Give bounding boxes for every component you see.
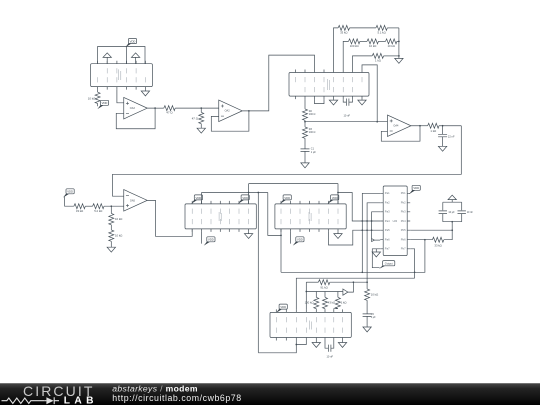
wire pin2 riser: [201, 193, 203, 204]
wire long branch down: [257, 193, 259, 353]
svg-text:100 kΩ: 100 kΩ: [350, 44, 359, 48]
wire: [350, 27, 376, 29]
IC U1 inner pin-name marks: [98, 68, 146, 82]
logo diode: [44, 397, 59, 404]
svg-text:OA3: OA3: [130, 107, 136, 110]
wire L1 from H1 bus: [362, 193, 380, 272]
svg-text:1 kΩ: 1 kΩ: [341, 301, 347, 305]
IC U2 bottom pin stubs: [296, 96, 363, 99]
svg-text:43 kΩ: 43 kΩ: [328, 301, 335, 305]
IC U5 inner pin labels: [385, 191, 406, 251]
svg-text:91 kΩ: 91 kΩ: [320, 285, 327, 289]
resistor 10 kΩ: [365, 289, 370, 300]
wire pin1 down: [280, 229, 282, 272]
IC U1 bottom pin stubs: [98, 87, 146, 90]
ground below IC U1 pin6: [144, 90, 146, 91]
resistor 33 kΩ: [432, 237, 443, 242]
ground below pin7: [337, 232, 339, 234]
resistor 10 kΩ lower: [110, 225, 112, 230]
svg-text:22 nF: 22 nF: [448, 135, 455, 139]
capacitor 10 nF between pins6-7: [325, 341, 334, 352]
svg-text:Pb3: Pb3: [401, 210, 406, 214]
IC U2 inner pin-name marks: [296, 77, 363, 92]
wire row1 from pin5: [334, 28, 339, 70]
node VDD tag T3: [63, 189, 74, 198]
wire bus H2: [296, 278, 414, 309]
wire L7 to ground and output tap: [372, 249, 380, 268]
IC U4 top pin stubs: [281, 201, 338, 204]
resistor 10 kΩ upper: [110, 206, 112, 213]
wire OA2 out to IC U2 pin3: [249, 55, 315, 111]
IC U2 top pin stubs: [296, 70, 363, 73]
wire pin8 loop to OA4 node: [362, 65, 377, 122]
wire pin4 riser: [126, 47, 128, 64]
op-amp OA4: [388, 115, 412, 137]
svg-text:100 kΩ: 100 kΩ: [305, 301, 314, 305]
wire right rail: [398, 28, 400, 59]
wire: [397, 40, 399, 42]
resistor 47 Ω shunt: [200, 108, 202, 112]
svg-text:Pb4: Pb4: [401, 219, 406, 223]
svg-text:Pa2: Pa2: [385, 201, 390, 205]
wire IC U1 pin3 to OA3 +: [117, 90, 124, 103]
IC U1: [91, 64, 153, 87]
svg-text:10 kΩ: 10 kΩ: [115, 234, 122, 238]
svg-text:Pa5: Pa5: [385, 228, 390, 232]
wire L2 chain down: [367, 203, 380, 289]
wire L3 loop to L6 with direction marker: [372, 212, 381, 239]
IC U6 bottom pin stubs: [276, 338, 342, 341]
wire: [444, 230, 452, 240]
wire pin4 bottom jog to pin3 net: [296, 341, 306, 345]
wire to OA5 +: [104, 205, 124, 207]
logo resistor zigzag: [2, 398, 45, 403]
ground below pin5: [333, 99, 335, 100]
node VDD tag T8: [328, 195, 339, 204]
wire OA4 feedback loop: [381, 126, 420, 141]
svg-text:5.1 kΩ: 5.1 kΩ: [378, 30, 386, 34]
wire pin4 riser: [305, 282, 307, 309]
resistor R2 100 Ω: [304, 99, 306, 109]
svg-text:OA4: OA4: [393, 125, 399, 128]
node VDD tag T4: [191, 195, 202, 204]
svg-text:LAB: LAB: [64, 396, 98, 405]
capacitor 10 µF: [439, 202, 447, 222]
resistor R3 100 Ω: [304, 120, 306, 127]
wire OA5 out to IC U3 pin1: [147, 200, 192, 236]
svg-text:1 µF: 1 µF: [311, 151, 317, 154]
IC U5 right pin stubs: [407, 193, 410, 249]
resistor 33 kΩ: [74, 204, 85, 209]
node VDD tag T10: [276, 304, 287, 313]
svg-text:http://circuitlab.com/cwb6p78: http://circuitlab.com/cwb6p78: [112, 393, 241, 403]
node VDD tag T9 below pin2: [290, 232, 292, 244]
svg-text:100 Ω: 100 Ω: [309, 131, 316, 134]
svg-text:10 kΩ: 10 kΩ: [388, 44, 395, 48]
svg-text:Pa3: Pa3: [385, 210, 390, 214]
capacitor 10 nF: [458, 202, 466, 222]
power flag on pin5: [135, 57, 137, 63]
ground: [197, 128, 205, 133]
svg-text:10 µF: 10 µF: [448, 211, 455, 214]
resistor 10 kΩ: [367, 39, 378, 44]
svg-text:Pb1: Pb1: [401, 191, 406, 195]
resistor 10 kΩ: [386, 39, 397, 44]
wire cap block bottom: [443, 222, 462, 231]
IC U4 bottom pin stubs: [281, 229, 338, 232]
wire buffer row: [306, 291, 343, 293]
svg-text:10 kΩ: 10 kΩ: [371, 292, 378, 296]
svg-text:Pa1: Pa1: [385, 191, 390, 195]
wire OA2 feedback loop: [211, 111, 249, 131]
ground: [363, 327, 371, 332]
wire row3 from pin7: [353, 56, 373, 70]
IC U5 left pin stubs: [380, 193, 383, 249]
wire: [360, 40, 367, 42]
svg-text:5.2 kΩ: 5.2 kΩ: [94, 209, 102, 213]
wire: [439, 125, 461, 127]
resistor 43 kΩ: [324, 292, 326, 298]
node junction: [200, 107, 202, 109]
wire row2 from pin6: [343, 41, 348, 69]
svg-text:47 Ω: 47 Ω: [192, 117, 199, 121]
resistor 47 Ω series: [164, 106, 175, 111]
ground: [395, 58, 403, 63]
wire OA3 feedback loop: [116, 108, 155, 129]
ground below pin8: [342, 341, 344, 343]
wire pin7 node to tall IC L4: [338, 193, 380, 222]
wire: [330, 281, 367, 283]
node VDD tag T6 below pin2: [201, 232, 203, 244]
wire R6: [410, 239, 432, 241]
IC U3: [185, 204, 256, 229]
wire pins3-4 jumper: [315, 99, 325, 104]
resistor 33 kΩ: [338, 25, 349, 30]
resistor 5.2 kΩ: [93, 204, 104, 209]
node Output tag T12: [379, 265, 387, 269]
ground below pin5: [315, 341, 317, 343]
resistor 100 kΩ: [349, 39, 360, 44]
wire top rail to IC U4 pin7: [249, 183, 339, 185]
capacitor C1 1 µF: [301, 138, 310, 163]
wire R7 down: [410, 249, 414, 278]
svg-text:10 nF: 10 nF: [343, 114, 350, 118]
resistor 1 kΩ: [420, 125, 428, 127]
node VDD tag T1: [125, 39, 136, 48]
resistor 1 kΩ: [372, 53, 383, 58]
wire to OA2 +: [175, 107, 219, 109]
svg-text:Pb6: Pb6: [401, 238, 406, 242]
IC U6 inner pin-name marks: [276, 317, 342, 333]
wire pin7 riser to top rail: [248, 184, 250, 204]
svg-text:OA5: OA5: [130, 199, 136, 202]
svg-text:Pa4: Pa4: [385, 219, 390, 223]
wire buffer out up to rail: [348, 282, 354, 292]
svg-text:Output: Output: [385, 262, 393, 266]
svg-text:OA2: OA2: [225, 110, 231, 113]
wire pin7 riser: [337, 184, 339, 204]
wire branch to IC U4 pin1 column: [268, 193, 281, 236]
svg-text:abstarkeys / modem: abstarkeys / modem: [112, 383, 198, 393]
wire: [384, 55, 399, 57]
svg-text:10 kΩ: 10 kΩ: [88, 97, 96, 101]
buffer marker: [343, 289, 348, 295]
ground below pin8: [361, 99, 363, 100]
resistor 1 kΩ: [337, 292, 339, 298]
svg-text:47 Ω: 47 Ω: [166, 111, 173, 115]
wire: [378, 40, 385, 42]
IC U2: [289, 73, 369, 97]
svg-text:10 nF: 10 nF: [467, 211, 474, 214]
node OA3 out: [154, 107, 156, 109]
op-amp OA5: [124, 190, 148, 212]
svg-text:33 kΩ: 33 kΩ: [434, 243, 441, 247]
wire pin3 bottom to long branch: [258, 341, 296, 353]
wire: [85, 205, 92, 207]
svg-text:10 nF: 10 nF: [326, 355, 333, 359]
wire R5 to crystal node: [410, 229, 452, 231]
wire bus H1: [281, 271, 425, 273]
wire from VDD: [65, 197, 74, 206]
wire top rail: [306, 281, 318, 283]
resistor R1 10 kΩ: [97, 90, 99, 93]
wire OA3 out: [155, 107, 164, 109]
svg-text:1 kΩ: 1 kΩ: [430, 129, 436, 133]
wire node to OA4 +: [305, 121, 388, 123]
ground: [438, 146, 446, 151]
svg-text:1 µF: 1 µF: [371, 316, 376, 319]
wire R6 node down to H1: [424, 240, 426, 273]
svg-text:U20: U20: [393, 220, 398, 223]
ground: [301, 163, 309, 168]
decoupling caps block by U5: [443, 200, 462, 203]
svg-text:33 kΩ: 33 kΩ: [340, 30, 347, 34]
op-amp OA2: [219, 100, 243, 122]
IC U5: [383, 186, 407, 256]
svg-text:Pa6: Pa6: [385, 238, 390, 242]
IC U6 top pin stubs: [276, 309, 342, 312]
IC U3 bottom pin stubs: [192, 229, 248, 232]
resistor 91 kΩ: [318, 280, 329, 285]
svg-text:Pb7: Pb7: [401, 247, 406, 251]
IC U3 top pin stubs: [192, 201, 248, 204]
ground below pin7: [248, 232, 250, 234]
node VSS tag T2: [97, 100, 108, 109]
svg-text:100 Ω: 100 Ω: [309, 113, 316, 116]
capacitor C5 1 µF: [363, 300, 372, 327]
svg-text:10 kΩ: 10 kΩ: [369, 44, 376, 48]
svg-text:10 kΩ: 10 kΩ: [115, 217, 122, 221]
op-amp OA3: [124, 97, 148, 119]
resistor 100 kΩ: [315, 292, 317, 298]
svg-text:1 kΩ: 1 kΩ: [375, 58, 381, 62]
power flag on pin2: [106, 57, 108, 63]
capacitor 22 nF: [438, 126, 447, 147]
ground: [110, 241, 112, 247]
node: [304, 121, 306, 123]
resistor 5.1 kΩ: [376, 25, 387, 30]
node VDD tag T5: [238, 195, 249, 204]
IC U1 top pin stubs: [98, 61, 146, 64]
wire: [387, 27, 399, 29]
IC U3 inner pin-name marks: [192, 209, 248, 225]
wire VDD rail over IC1: [98, 47, 145, 64]
node OA2 out: [248, 110, 250, 112]
node OA4 out: [419, 125, 421, 127]
wire long feedback to OA5 -: [113, 126, 462, 196]
wire pin6 to tall IC L5: [329, 230, 381, 245]
capacitor 10 nF between pins6-7: [343, 99, 352, 106]
svg-text:Pb5: Pb5: [401, 228, 406, 232]
footer bar: [0, 383, 540, 405]
node VDD tag T11: [409, 185, 420, 194]
wire pin2-pin7 rail: [202, 192, 268, 194]
IC U6: [270, 312, 351, 337]
node VDD tag T7: [280, 195, 291, 204]
svg-text:Pa7: Pa7: [385, 247, 390, 251]
IC U4 inner pin-name marks: [281, 209, 338, 225]
svg-text:33 kΩ: 33 kΩ: [76, 209, 83, 213]
svg-text:Pb2: Pb2: [401, 201, 406, 205]
IC U4: [275, 204, 346, 229]
